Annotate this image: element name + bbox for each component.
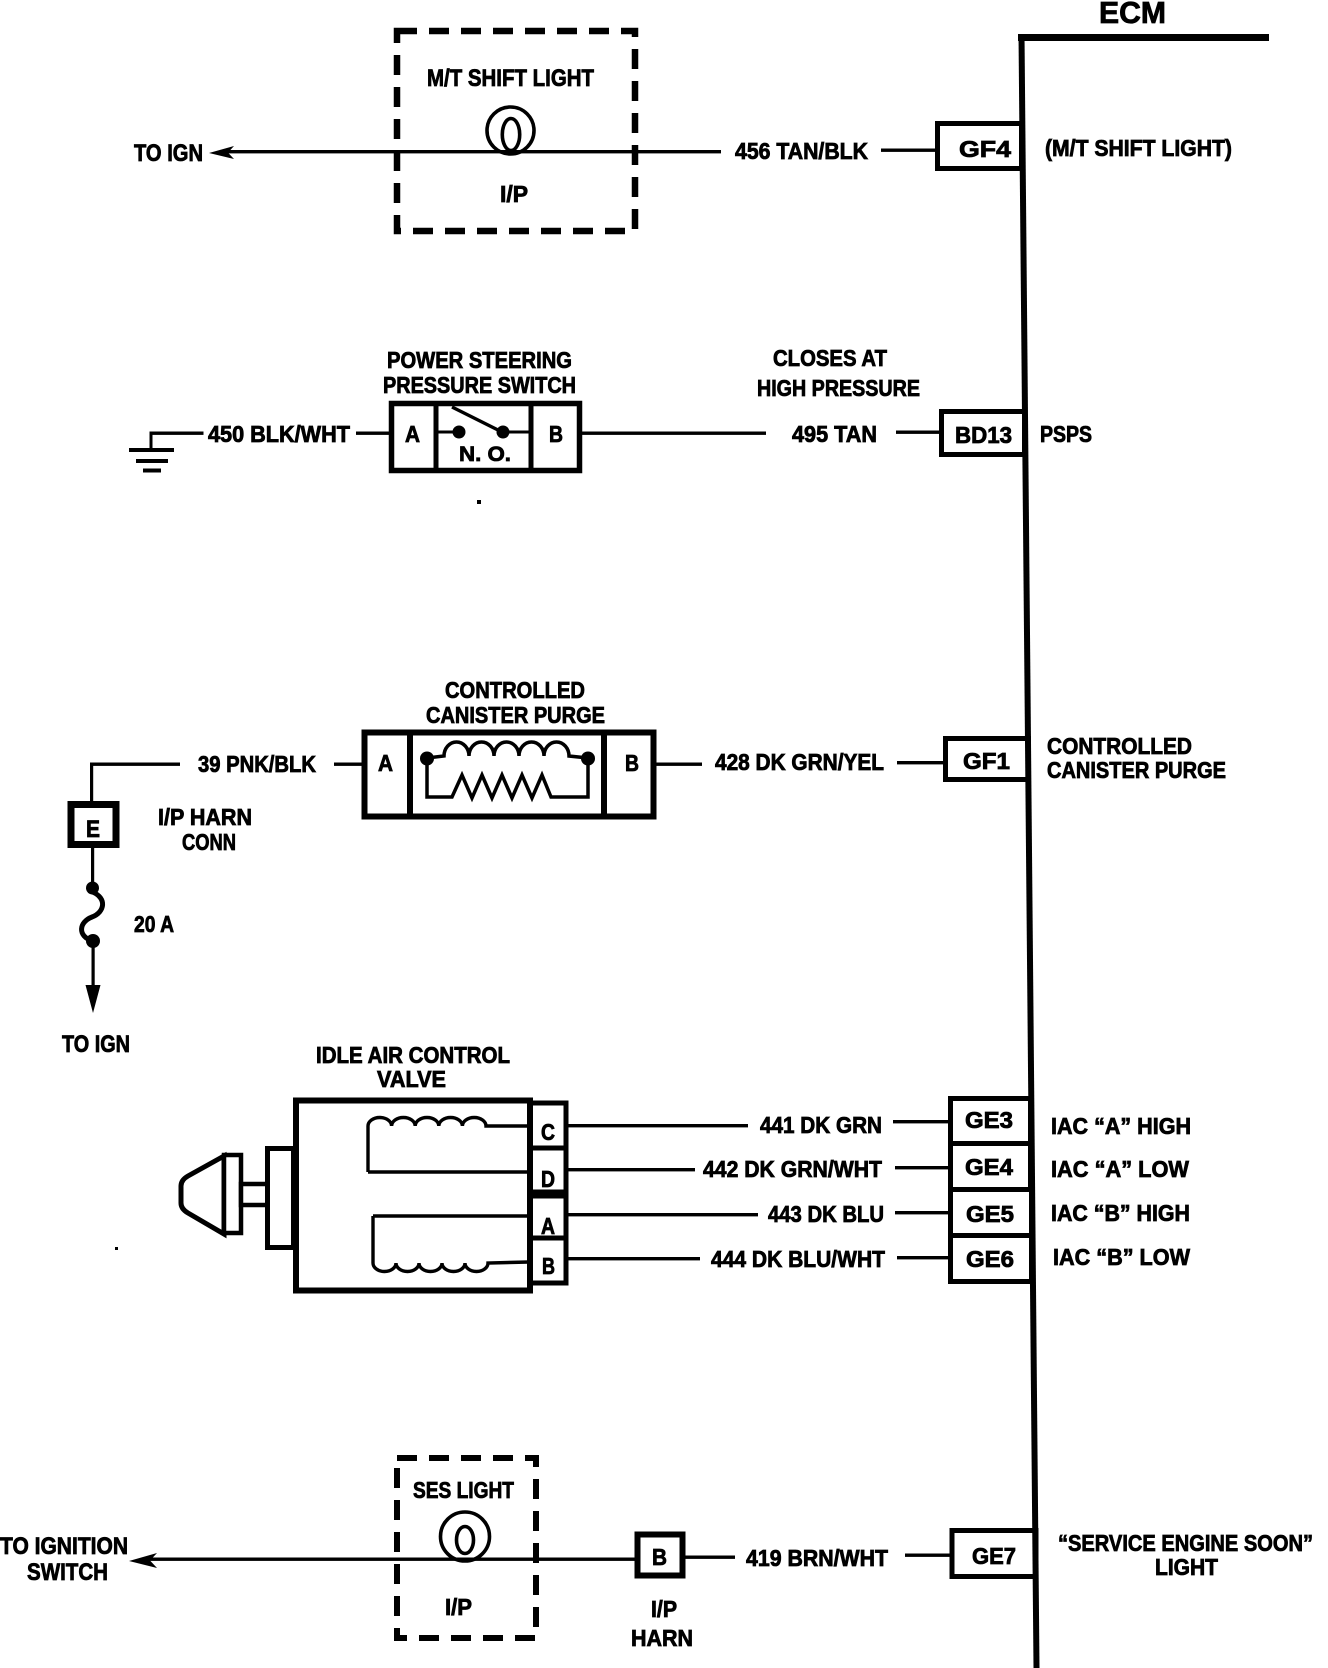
ECM terminal GE6 <box>951 1236 1032 1282</box>
wire: connector E to fuse <box>91 848 94 884</box>
svg-text:444 DK BLU/WHT: 444 DK BLU/WHT <box>711 1246 885 1272</box>
svg-text:VALVE: VALVE <box>377 1066 446 1092</box>
svg-text:39 PNK/BLK: 39 PNK/BLK <box>198 751 316 777</box>
svg-text:PSPS: PSPS <box>1040 421 1092 447</box>
node: solenoid coil right junction <box>581 752 595 766</box>
I/P harness connector B <box>638 1535 683 1576</box>
svg-text:495 TAN: 495 TAN <box>792 421 877 447</box>
svg-text:(M/T SHIFT LIGHT): (M/T SHIFT LIGHT) <box>1045 135 1232 161</box>
svg-text:GE6: GE6 <box>966 1246 1014 1272</box>
svg-text:LIGHT: LIGHT <box>1155 1554 1218 1580</box>
svg-text:SES LIGHT: SES LIGHT <box>413 1477 514 1503</box>
ground symbol <box>150 433 153 450</box>
ECM terminal GF1 <box>946 739 1029 780</box>
svg-text:B: B <box>549 421 563 447</box>
svg-text:CANISTER PURGE: CANISTER PURGE <box>426 702 605 728</box>
stray ink speck (left margin) <box>115 1247 118 1250</box>
wire: pin A to 443 label <box>566 1213 758 1216</box>
svg-text:PRESSURE SWITCH: PRESSURE SWITCH <box>383 372 576 398</box>
wire: lamp row 456 circuit <box>225 150 721 153</box>
svg-text:CONN: CONN <box>182 829 236 855</box>
IAC connector pin C cell <box>530 1103 566 1148</box>
wire: 450 into switch pin A <box>356 432 391 435</box>
svg-text:B: B <box>542 1253 555 1279</box>
stray ink speck <box>477 500 481 504</box>
lamp L2 service engine soon bulb <box>441 1512 490 1561</box>
ECM terminal BD13 <box>942 412 1025 455</box>
svg-text:IAC “A” LOW: IAC “A” LOW <box>1051 1156 1189 1182</box>
svg-text:443 DK BLU: 443 DK BLU <box>768 1201 884 1227</box>
svg-text:A: A <box>378 750 393 776</box>
svg-text:GF4: GF4 <box>959 136 1011 162</box>
arrowhead to ignition switch <box>129 1553 157 1568</box>
svg-text:GE7: GE7 <box>972 1543 1016 1569</box>
svg-text:A: A <box>405 421 420 447</box>
wire: 39 circuit horizontal <box>90 763 180 766</box>
svg-text:“SERVICE ENGINE SOON”: “SERVICE ENGINE SOON” <box>1058 1530 1313 1556</box>
node: solenoid coil left junction <box>420 752 434 766</box>
svg-text:B: B <box>652 1544 667 1570</box>
ECM top edge wire <box>1018 34 1269 41</box>
wire: 419 into GE7 <box>905 1554 952 1557</box>
wire: pin D to 442 label <box>566 1168 695 1171</box>
svg-text:GE3: GE3 <box>965 1107 1013 1133</box>
svg-text:D: D <box>541 1166 555 1192</box>
IAC connector pin B cell <box>530 1238 566 1283</box>
svg-text:CANISTER PURGE: CANISTER PURGE <box>1047 757 1226 783</box>
svg-text:TO IGNITION: TO IGNITION <box>0 1533 128 1560</box>
wire: 444 into GE6 <box>897 1256 948 1259</box>
IAC connector pin A cell <box>530 1196 566 1238</box>
wire: 441 into GE3 <box>893 1120 948 1123</box>
svg-text:HIGH PRESSURE: HIGH PRESSURE <box>757 375 920 401</box>
arrowhead to IGN feed <box>209 146 234 159</box>
wire: 442 into GE4 <box>895 1166 948 1169</box>
svg-text:POWER STEERING: POWER STEERING <box>387 347 572 373</box>
wire: 428 into GF1 <box>897 761 943 764</box>
svg-text:456 TAN/BLK: 456 TAN/BLK <box>735 138 868 164</box>
svg-text:CLOSES AT: CLOSES AT <box>773 345 887 371</box>
svg-text:20 A: 20 A <box>134 911 174 937</box>
svg-text:419 BRN/WHT: 419 BRN/WHT <box>746 1545 888 1571</box>
wire: switch pin B to 495 label <box>579 432 766 435</box>
ECM terminal GE5 <box>951 1190 1032 1236</box>
svg-text:N. O.: N. O. <box>459 442 511 466</box>
svg-text:I/P: I/P <box>651 1596 677 1622</box>
svg-text:BD13: BD13 <box>955 422 1012 448</box>
svg-text:CONTROLLED: CONTROLLED <box>1047 733 1192 759</box>
lamp L1 M/T shift light bulb <box>487 107 534 154</box>
IAC pintle cone <box>181 1156 224 1234</box>
solenoid coil winding <box>427 742 588 758</box>
SES light dashed housing (I/P cluster) <box>397 1458 536 1638</box>
svg-text:I/P: I/P <box>500 181 528 207</box>
wire: 495 into BD13 <box>896 431 939 434</box>
svg-text:I/P: I/P <box>445 1594 472 1620</box>
IAC valve body <box>296 1101 530 1291</box>
wire: pin B to 444 label <box>566 1257 700 1260</box>
svg-text:GE4: GE4 <box>965 1154 1013 1180</box>
wire: SES lamp row 419 circuit <box>148 1558 635 1561</box>
svg-text:M/T SHIFT LIGHT: M/T SHIFT LIGHT <box>427 65 594 92</box>
M/T shift light dashed housing (I/P cluster) <box>397 31 635 231</box>
canister purge solenoid body <box>365 733 654 817</box>
wire: ground to 450 label <box>150 432 204 435</box>
svg-text:428 DK GRN/YEL: 428 DK GRN/YEL <box>715 749 884 775</box>
IAC pintle shaft <box>241 1184 268 1205</box>
wire: connector B to 419 label <box>685 1556 735 1559</box>
wire: 443 into GE5 <box>895 1211 948 1214</box>
wire: solenoid pin B to 428 label <box>656 763 702 766</box>
ECM terminal GE4 <box>951 1144 1031 1190</box>
I/P harness connector E <box>71 805 116 845</box>
svg-text:I/P HARN: I/P HARN <box>158 804 252 830</box>
svg-text:GE5: GE5 <box>966 1201 1014 1227</box>
svg-text:450 BLK/WHT: 450 BLK/WHT <box>208 421 350 447</box>
svg-text:E: E <box>86 816 100 843</box>
svg-text:442 DK GRN/WHT: 442 DK GRN/WHT <box>703 1156 882 1182</box>
pressure switch S1 body (PSPS) <box>392 404 580 471</box>
svg-text:IDLE AIR CONTROL: IDLE AIR CONTROL <box>316 1042 510 1068</box>
wire: drop to I/P harness connector <box>90 763 93 802</box>
IAC coil B winding (pins A-B) <box>373 1214 529 1217</box>
ECM connector face line (vertical bus) <box>1019 34 1040 1668</box>
ECM terminal GE3 <box>951 1099 1031 1144</box>
svg-text:CONTROLLED: CONTROLLED <box>445 677 585 703</box>
arrowhead down to IGN <box>86 985 101 1013</box>
IAC mounting flange <box>268 1149 294 1248</box>
svg-text:ECM: ECM <box>1099 0 1166 30</box>
wire: fuse to IGN feed <box>92 947 95 989</box>
svg-text:HARN: HARN <box>631 1625 693 1651</box>
ECM terminal GF4 <box>938 124 1022 169</box>
wire: 456 into GF4 <box>881 149 935 152</box>
fuse F1 20 A <box>86 882 99 895</box>
svg-text:TO IGN: TO IGN <box>134 140 203 167</box>
svg-text:IAC “B” LOW: IAC “B” LOW <box>1053 1244 1190 1270</box>
svg-text:441 DK GRN: 441 DK GRN <box>760 1112 882 1138</box>
wire: 39 into solenoid pin A <box>334 763 362 766</box>
IAC coil A winding (pins C-D) <box>368 1117 529 1172</box>
IAC connector pin D cell <box>530 1148 566 1192</box>
svg-text:IAC “B” HIGH: IAC “B” HIGH <box>1051 1200 1190 1226</box>
svg-text:C: C <box>541 1119 555 1145</box>
suppression resistor across coil <box>427 762 588 798</box>
svg-text:SWITCH: SWITCH <box>27 1559 108 1586</box>
svg-text:GF1: GF1 <box>963 748 1010 774</box>
ECM terminal GE7 <box>952 1531 1036 1577</box>
svg-text:IAC “A” HIGH: IAC “A” HIGH <box>1051 1113 1191 1139</box>
switch contacts normally-open <box>436 431 455 434</box>
svg-text:A: A <box>541 1213 555 1239</box>
svg-text:TO IGN: TO IGN <box>62 1031 130 1058</box>
wire: pin C to 441 label <box>566 1124 748 1127</box>
svg-text:B: B <box>625 750 639 776</box>
